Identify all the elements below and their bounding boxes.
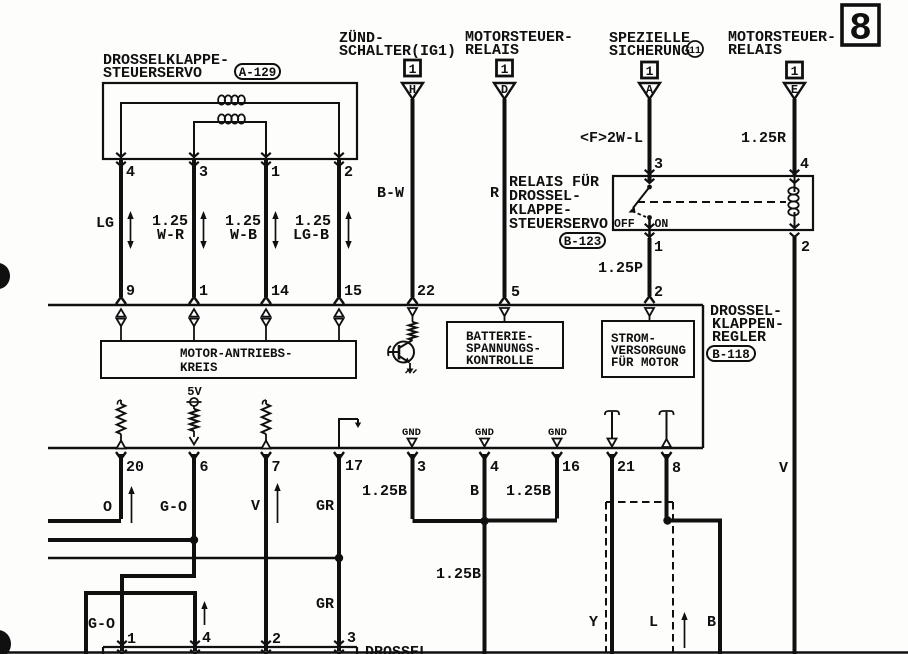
STROM-VERSORGUNG FUR MOTOR box xyxy=(602,321,694,377)
pin number 21 xyxy=(617,459,635,476)
ECU pin1 inner connector xyxy=(190,309,199,341)
svg-text:DROSSEL: DROSSEL xyxy=(365,644,428,654)
junction dot pin8 xyxy=(663,516,671,524)
svg-text:2: 2 xyxy=(801,239,810,256)
label MOTOR-ANTRIEBS-KREIS xyxy=(180,347,293,375)
label 1.25 W-R xyxy=(152,213,188,244)
junction dot G-O xyxy=(190,536,198,544)
pin number 3 bottom xyxy=(347,630,356,647)
svg-text:MOTOR-ANTRIEBS-: MOTOR-ANTRIEBS- xyxy=(180,347,293,361)
svg-text:R: R xyxy=(490,185,499,202)
double arrow at LG wire xyxy=(127,211,133,249)
svg-text:E: E xyxy=(791,83,798,97)
svg-text:9: 9 xyxy=(126,283,135,300)
relay pin number 4 xyxy=(800,156,809,173)
label O xyxy=(103,499,112,516)
svg-text:2: 2 xyxy=(654,284,663,301)
servo winding M2 wire xyxy=(194,122,266,159)
svg-text:FÜR MOTOR: FÜR MOTOR xyxy=(611,354,679,370)
ECU box right edge xyxy=(702,305,704,448)
connector code B-118 xyxy=(707,346,755,362)
wire O pin20 xyxy=(48,452,126,521)
svg-text:RELAIS: RELAIS xyxy=(465,42,519,59)
svg-text:3: 3 xyxy=(417,459,426,476)
svg-text:LG-B: LG-B xyxy=(293,227,329,244)
svg-text:SICHERUNG: SICHERUNG xyxy=(609,43,690,60)
wire V pin7 xyxy=(261,452,271,651)
BATTERIE-SPANNUNGS-KONTROLLE box xyxy=(447,322,563,368)
ECU box bottom edge xyxy=(48,447,703,449)
label DROSSEL bottom xyxy=(365,644,428,654)
connector code A-129 xyxy=(235,64,280,80)
ECU pin15 inner connector xyxy=(335,309,344,341)
pin numbers 9 1 14 15 xyxy=(126,283,362,300)
svg-text:GND: GND xyxy=(402,427,421,439)
pin number 3 ECU xyxy=(417,459,426,476)
svg-text:1.25R: 1.25R xyxy=(741,130,786,147)
servo pin numbers 4 3 1 2 xyxy=(126,164,353,181)
ECU pin9 inner connector xyxy=(117,309,126,341)
label B-W xyxy=(377,185,404,202)
svg-text:B-118: B-118 xyxy=(712,348,750,362)
label ON xyxy=(655,218,669,231)
binder hole lower-left xyxy=(0,630,11,654)
double arrow at LG-B wire xyxy=(345,211,351,249)
label L xyxy=(649,614,658,631)
svg-text:V: V xyxy=(251,498,260,515)
label STROM-VERSORGUNG FUR MOTOR xyxy=(611,332,686,370)
wire 1.25P xyxy=(645,238,655,303)
pin number 2 bottom xyxy=(272,631,281,648)
wire GR pin17 xyxy=(334,452,344,651)
svg-text:LG: LG xyxy=(96,215,114,232)
wire B bend xyxy=(668,521,721,654)
label B pin4 xyxy=(470,483,479,500)
servo pin 3 box crossing xyxy=(189,153,199,166)
servo pin 2 box crossing xyxy=(334,153,344,166)
relay switch blade OFF xyxy=(629,187,650,213)
svg-text:1: 1 xyxy=(199,283,208,300)
label ZUND-SCHALTER(IG1) xyxy=(339,30,456,60)
pin number 20 xyxy=(126,459,144,476)
svg-text:STEUERSERVO: STEUERSERVO xyxy=(103,65,202,82)
thin wire from left to GR junction xyxy=(48,557,337,560)
pin number 8 xyxy=(672,460,681,477)
svg-text:22: 22 xyxy=(417,283,435,300)
svg-text:1: 1 xyxy=(791,64,799,79)
label RELAIS FUR DROSSELKLAPPE-STEUERSERVO xyxy=(509,174,608,233)
svg-text:OFF: OFF xyxy=(614,218,635,231)
svg-text:W-B: W-B xyxy=(230,227,257,244)
ECU pin5 inner connector xyxy=(500,308,509,322)
relay switch dashed ON throw xyxy=(632,211,646,217)
svg-text:17: 17 xyxy=(345,458,363,475)
pin number 5 xyxy=(511,284,520,301)
wire R to pin5 xyxy=(500,99,510,304)
transistor emitter ground xyxy=(406,363,417,374)
svg-text:14: 14 xyxy=(271,283,289,300)
svg-text:KONTROLLE: KONTROLLE xyxy=(466,354,534,368)
svg-text:KREIS: KREIS xyxy=(180,361,218,375)
svg-text:B: B xyxy=(470,483,479,500)
label 1.25P xyxy=(598,260,643,277)
svg-text:L: L xyxy=(649,614,658,631)
svg-text:1.25P: 1.25P xyxy=(598,260,643,277)
resistor above transistor xyxy=(409,322,417,340)
wire B pin4 xyxy=(480,452,490,654)
ECU pin14 inner connector xyxy=(262,309,271,341)
label G-O xyxy=(160,499,187,516)
servo winding M2 coil xyxy=(218,114,245,123)
wire Y pin21 xyxy=(607,452,617,654)
terminal H triangle xyxy=(402,83,423,99)
servo box A-129 outline xyxy=(103,83,357,159)
svg-text:1.25B: 1.25B xyxy=(362,483,407,500)
wire 1.25R to relay pin4 xyxy=(790,99,800,183)
svg-text:4: 4 xyxy=(490,459,499,476)
svg-text:7: 7 xyxy=(272,459,281,476)
relay pin number 2 right xyxy=(801,239,810,256)
svg-text:<F>2W-L: <F>2W-L xyxy=(580,130,643,147)
connector 1 of fuse xyxy=(642,62,658,79)
arrow at G-O loop xyxy=(201,601,207,625)
MOTOR-ANTRIEBS-KREIS box xyxy=(101,341,356,378)
svg-text:15: 15 xyxy=(344,283,362,300)
junction dot B xyxy=(480,517,488,525)
svg-text:STEUERSERVO: STEUERSERVO xyxy=(509,216,608,233)
5V supply node xyxy=(187,385,203,406)
relay B-123 box outline xyxy=(613,176,813,230)
connector 1 of relay right xyxy=(787,62,803,79)
wire from left to G-O junction xyxy=(48,538,192,542)
wire LG-B pin2 to pin15 xyxy=(334,158,344,304)
svg-text:1: 1 xyxy=(654,239,663,256)
pin number 1 bottom xyxy=(127,631,136,648)
binder hole upper-left xyxy=(0,263,10,289)
relay pin2 box crossing xyxy=(790,224,800,237)
pin 3 entry to bottom box xyxy=(334,641,344,654)
svg-text:G-O: G-O xyxy=(160,499,187,516)
label G-O lower xyxy=(88,616,115,633)
svg-text:Y: Y xyxy=(589,614,598,631)
svg-text:A: A xyxy=(646,83,654,97)
pin number 6 xyxy=(200,459,209,476)
connector 1 of relay feed xyxy=(497,60,513,77)
hook at pin17 xyxy=(339,419,361,448)
svg-text:4: 4 xyxy=(126,164,135,181)
svg-text:A-129: A-129 xyxy=(239,66,277,80)
relay pin number 3 xyxy=(654,156,663,173)
svg-text:1: 1 xyxy=(409,62,417,77)
hook at pin21 xyxy=(605,411,619,447)
relay coil wire bottom xyxy=(794,212,796,230)
wire G-O loop bottom left xyxy=(86,593,195,654)
terminal A triangle xyxy=(639,83,660,99)
pin number 7 xyxy=(272,459,281,476)
svg-text:GND: GND xyxy=(475,427,494,439)
label 1.25B pin16 xyxy=(506,483,551,500)
svg-text:21: 21 xyxy=(617,459,635,476)
svg-text:4: 4 xyxy=(800,156,809,173)
relay output wire to pin1 xyxy=(645,218,655,239)
label 1.25R xyxy=(741,130,786,147)
pin number 22 xyxy=(417,283,435,300)
label V right xyxy=(779,460,788,477)
terminal E triangle xyxy=(784,83,805,99)
arrow at O wire xyxy=(128,486,134,523)
dashed harness box xyxy=(606,502,673,654)
svg-text:5V: 5V xyxy=(187,385,202,399)
svg-text:B: B xyxy=(707,614,716,631)
relay switch pivot xyxy=(647,185,652,190)
resistor at pin20 xyxy=(117,400,126,449)
svg-text:B-123: B-123 xyxy=(564,235,602,249)
junction dot GR xyxy=(335,554,343,562)
relay mech link dashed xyxy=(637,201,786,203)
servo winding M1 coil xyxy=(218,95,245,104)
svg-text:11: 11 xyxy=(689,46,701,57)
svg-text:3: 3 xyxy=(347,630,356,647)
wire 1.25B pin3 xyxy=(408,452,484,521)
label F 2W-L xyxy=(580,130,643,147)
pin number 4 ECU xyxy=(490,459,499,476)
wire W-R pin3 to pin1 xyxy=(189,158,199,304)
label Y xyxy=(589,614,598,631)
label LG xyxy=(96,215,114,232)
svg-text:3: 3 xyxy=(199,164,208,181)
label BATTERIE-SPANNUNGS-KONTROLLE xyxy=(466,330,541,368)
label 1.25 LG-B xyxy=(293,213,331,244)
svg-text:1.25B: 1.25B xyxy=(506,483,551,500)
bottom connector box edge xyxy=(103,647,357,654)
connector code B-123 xyxy=(560,233,605,249)
svg-text:1: 1 xyxy=(501,62,509,77)
ECU box top edge xyxy=(48,304,703,306)
servo winding M1 wire xyxy=(121,103,339,159)
label GR lower xyxy=(316,596,334,613)
pin 2 entry to bottom box xyxy=(261,641,271,654)
label B lower xyxy=(707,614,716,631)
double arrow at W-B wire xyxy=(272,211,278,249)
svg-text:3: 3 xyxy=(654,156,663,173)
svg-text:16: 16 xyxy=(562,459,580,476)
wire G-O pin6 lower xyxy=(122,540,194,651)
wire B-W to pin22 xyxy=(408,99,418,304)
wire LG pin4 to pin9 xyxy=(116,158,126,304)
pin number 2 below relay xyxy=(654,284,663,301)
relay coil wire top xyxy=(794,176,796,192)
resistor at pin6 xyxy=(190,406,199,445)
arrow at V wire xyxy=(274,483,280,523)
pin 1 entry to bottom box xyxy=(117,641,127,654)
svg-text:1: 1 xyxy=(271,164,280,181)
terminal D triangle xyxy=(494,83,515,99)
wire W-B pin1 to pin14 xyxy=(261,158,271,304)
label DROSSELKLAPPE-STEUERSERVO xyxy=(103,52,229,82)
svg-text:W-R: W-R xyxy=(157,227,184,244)
GND label pin4 xyxy=(475,427,494,447)
relay pin number 1 xyxy=(654,239,663,256)
svg-text:5: 5 xyxy=(511,284,520,301)
svg-text:1: 1 xyxy=(646,64,654,79)
ECU pin2 inner connector xyxy=(645,308,654,321)
pin number 4 bottom xyxy=(202,630,211,647)
label 1.25B pin3 xyxy=(362,483,407,500)
svg-text:2: 2 xyxy=(272,631,281,648)
resistor at pin7 xyxy=(262,400,271,449)
servo pin 4 box crossing xyxy=(116,153,126,166)
arrow at L wire xyxy=(681,612,687,648)
pin 4 entry to bottom box xyxy=(190,641,200,654)
relay switch ON contact xyxy=(647,215,652,220)
svg-text:SCHALTER(IG1): SCHALTER(IG1) xyxy=(339,43,456,60)
label 1.25 W-B xyxy=(225,213,261,244)
label MOTORSTEUER-RELAIS left xyxy=(465,29,573,59)
wire V down right side xyxy=(793,237,797,654)
ECU pin22 inner connector xyxy=(408,308,417,322)
wire G-O pin6 upper xyxy=(189,452,199,540)
svg-text:20: 20 xyxy=(126,459,144,476)
pin number 17 xyxy=(345,458,363,475)
connector 1 of ignition switch xyxy=(405,60,421,77)
svg-text:D: D xyxy=(501,83,508,97)
label SPEZIELLE SICHERUNG 11 xyxy=(609,30,703,60)
svg-text:4: 4 xyxy=(202,630,211,647)
page frame bottom line xyxy=(0,651,908,654)
label 1.25B lower xyxy=(436,566,481,583)
label V pin7 xyxy=(251,498,260,515)
GND label pin16 xyxy=(548,427,567,447)
wire 2W-L to relay pin3 xyxy=(645,99,655,183)
wire 1.25B pin16 xyxy=(486,452,562,521)
svg-text:1: 1 xyxy=(127,631,136,648)
label DROSSEL-KLAPPEN-REGLER xyxy=(710,303,784,346)
relay coil xyxy=(788,187,798,215)
page number 8 box xyxy=(842,5,879,51)
GND label pin3 xyxy=(402,427,421,447)
svg-text:GND: GND xyxy=(548,427,567,439)
svg-text:G-O: G-O xyxy=(88,616,115,633)
svg-text:RELAIS: RELAIS xyxy=(728,42,782,59)
svg-text:GR: GR xyxy=(316,498,334,515)
svg-text:V: V xyxy=(779,460,788,477)
svg-text:1.25B: 1.25B xyxy=(436,566,481,583)
svg-text:REGLER: REGLER xyxy=(712,329,766,346)
svg-text:H: H xyxy=(409,83,416,97)
label R xyxy=(490,185,499,202)
svg-text:8: 8 xyxy=(672,460,681,477)
double arrow at W-R wire xyxy=(200,211,206,249)
label GR upper xyxy=(316,498,334,515)
svg-text:O: O xyxy=(103,499,112,516)
label OFF xyxy=(614,218,635,231)
svg-text:GR: GR xyxy=(316,596,334,613)
hook at pin8 xyxy=(659,411,673,447)
wire pin8 to B junction xyxy=(662,452,672,519)
svg-text:6: 6 xyxy=(200,459,209,476)
pin number 16 xyxy=(562,459,580,476)
svg-text:8: 8 xyxy=(849,8,872,51)
transistor Q1 xyxy=(388,340,414,363)
svg-text:B-W: B-W xyxy=(377,185,404,202)
servo pin 1 box crossing xyxy=(261,153,271,166)
svg-text:2: 2 xyxy=(344,164,353,181)
label MOTORSTEUER-RELAIS right xyxy=(728,29,836,59)
svg-text:ON: ON xyxy=(655,218,669,231)
